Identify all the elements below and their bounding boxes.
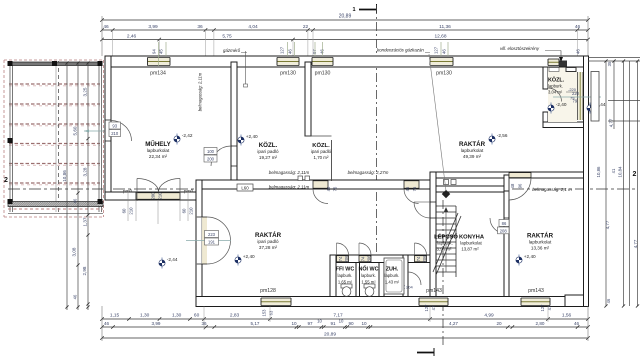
svg-text:210: 210 <box>189 207 194 215</box>
svg-text:ipari padló: ipari padló <box>311 149 332 154</box>
svg-text:lapburk.: lapburk. <box>437 241 453 246</box>
svg-text:191: 191 <box>208 240 216 245</box>
svg-text:210: 210 <box>129 207 134 215</box>
svg-text:46: 46 <box>405 186 410 191</box>
svg-text:ipari padló: ipari padló <box>257 239 279 244</box>
svg-text:4,77: 4,77 <box>609 118 614 127</box>
svg-text:36: 36 <box>197 24 203 30</box>
svg-text:belmagasság: 2,1 m: belmagasság: 2,1 m <box>532 187 572 192</box>
svg-text:3,08: 3,08 <box>72 247 77 256</box>
svg-text:46: 46 <box>606 298 611 303</box>
svg-text:13,36 m²: 13,36 m² <box>531 246 550 251</box>
svg-text:belmagasság: 2,11m: belmagasság: 2,11m <box>269 185 310 190</box>
svg-text:127: 127 <box>424 304 429 312</box>
svg-text:37,28 m²: 37,28 m² <box>259 245 278 250</box>
svg-text:1,37: 1,37 <box>83 217 88 226</box>
svg-text:11,36: 11,36 <box>439 24 451 30</box>
svg-text:lapburkolat: lapburkolat <box>461 148 484 153</box>
svg-text:45: 45 <box>159 49 164 54</box>
svg-text:5,60: 5,60 <box>73 126 78 135</box>
svg-text:RAKTÁR: RAKTÁR <box>527 233 554 240</box>
svg-text:MŰHELY: MŰHELY <box>145 141 171 148</box>
svg-text:86: 86 <box>502 221 507 226</box>
svg-text:1: 1 <box>352 7 355 13</box>
svg-text:lapburk.: lapburk. <box>338 273 353 278</box>
svg-text:60: 60 <box>182 208 187 213</box>
svg-text:1,70 m²: 1,70 m² <box>314 155 329 160</box>
svg-text:2,83: 2,83 <box>230 313 240 319</box>
svg-text:46: 46 <box>104 321 110 326</box>
svg-text:2,98: 2,98 <box>82 266 87 275</box>
svg-text:10,84: 10,84 <box>618 166 623 178</box>
svg-text:-2,56: -2,56 <box>497 133 508 138</box>
svg-text:RAKTÁR: RAKTÁR <box>459 141 486 148</box>
svg-text:3,04 m²: 3,04 m² <box>548 90 563 95</box>
svg-text:pm0: pm0 <box>184 189 194 195</box>
svg-text:vill. elosztószekrény: vill. elosztószekrény <box>500 46 540 51</box>
svg-text:lapburkolat: lapburkolat <box>460 241 482 246</box>
svg-text:2,46: 2,46 <box>127 34 137 40</box>
svg-text:10: 10 <box>339 319 344 324</box>
svg-text:belmagasság: 2,11m: belmagasság: 2,11m <box>269 170 310 175</box>
svg-text:lapburk.: lapburk. <box>385 273 400 278</box>
svg-text:46: 46 <box>576 49 581 54</box>
svg-text:208: 208 <box>500 229 508 234</box>
svg-text:pm0: pm0 <box>123 189 133 195</box>
svg-text:pm134: pm134 <box>150 71 166 77</box>
svg-text:lapburkolat: lapburkolat <box>147 148 170 153</box>
svg-text:5,75: 5,75 <box>222 34 232 40</box>
svg-text:97: 97 <box>307 321 313 326</box>
svg-text:pm130: pm130 <box>436 71 452 77</box>
svg-text:206: 206 <box>367 255 372 263</box>
svg-text:46: 46 <box>73 294 78 299</box>
svg-text:3,96 m²: 3,96 m² <box>437 247 452 252</box>
svg-text:35: 35 <box>607 61 612 66</box>
svg-text:91: 91 <box>330 321 336 326</box>
svg-text:210: 210 <box>111 131 119 136</box>
svg-text:10,86: 10,86 <box>62 170 67 182</box>
svg-text:pm130: pm130 <box>280 71 296 77</box>
svg-text:204: 204 <box>406 285 413 290</box>
svg-text:4,04: 4,04 <box>248 24 258 30</box>
svg-text:KÖZL.: KÖZL. <box>312 142 330 149</box>
svg-text:46: 46 <box>442 49 447 54</box>
svg-text:97: 97 <box>312 49 317 54</box>
svg-text:KÖZL.: KÖZL. <box>548 77 565 84</box>
svg-text:ipari padló: ipari padló <box>257 149 279 154</box>
svg-text:2: 2 <box>633 171 637 178</box>
svg-text:NŐI WC: NŐI WC <box>358 266 378 273</box>
svg-text:belmagasság: 2,27m: belmagasság: 2,27m <box>348 170 389 175</box>
svg-text:lapburk.: lapburk. <box>548 84 563 89</box>
svg-text:4,77: 4,77 <box>633 239 638 248</box>
svg-text:+2,40: +2,40 <box>246 134 258 139</box>
svg-text:1,30: 1,30 <box>172 313 182 319</box>
svg-text:-2,42: -2,42 <box>182 133 193 138</box>
svg-text:kondenzációs gázkazán: kondenzációs gázkazán <box>377 48 424 53</box>
svg-text:206: 206 <box>422 255 427 263</box>
svg-text:10: 10 <box>317 319 322 324</box>
svg-text:pm130: pm130 <box>315 71 331 77</box>
svg-text:76: 76 <box>333 186 338 191</box>
svg-text:100: 100 <box>207 149 215 154</box>
svg-text:60: 60 <box>194 313 200 319</box>
svg-text:pm128: pm128 <box>260 288 276 294</box>
svg-text:-2,40: -2,40 <box>556 102 567 107</box>
svg-text:1,15: 1,15 <box>110 313 120 319</box>
svg-text:L60: L60 <box>241 186 249 191</box>
svg-text:90: 90 <box>348 321 354 326</box>
svg-text:49,39 m²: 49,39 m² <box>463 154 482 159</box>
svg-text:79: 79 <box>570 96 575 101</box>
svg-text:46: 46 <box>103 24 109 30</box>
svg-text:1,30: 1,30 <box>140 313 150 319</box>
svg-text:200: 200 <box>207 157 215 162</box>
svg-text:127: 127 <box>434 46 439 54</box>
svg-text:3,25: 3,25 <box>83 87 88 96</box>
svg-text:1,55 m²: 1,55 m² <box>361 280 376 285</box>
svg-text:94: 94 <box>152 49 157 54</box>
svg-text:pm143: pm143 <box>528 288 544 294</box>
svg-text:1,43 m²: 1,43 m² <box>385 280 400 285</box>
svg-text:KÖZL.: KÖZL. <box>259 142 278 149</box>
svg-text:-2,44: -2,44 <box>167 257 178 262</box>
svg-text:153: 153 <box>262 309 267 317</box>
svg-text:46: 46 <box>326 186 331 191</box>
svg-text:RAKTÁR: RAKTÁR <box>255 232 282 239</box>
svg-text:1,65 m²: 1,65 m² <box>338 280 353 285</box>
svg-text:200: 200 <box>151 192 156 200</box>
svg-text:74: 74 <box>416 256 421 261</box>
svg-text:10,86: 10,86 <box>596 166 601 178</box>
svg-text:-220: -220 <box>568 87 577 92</box>
svg-text:22: 22 <box>303 24 309 30</box>
svg-text:127: 127 <box>280 46 285 54</box>
svg-text:5,17: 5,17 <box>251 321 260 326</box>
svg-text:74: 74 <box>361 256 366 261</box>
svg-text:20: 20 <box>496 321 502 326</box>
svg-text:+2,40: +2,40 <box>243 254 255 259</box>
svg-text:belmagasság: 2,11m: belmagasság: 2,11m <box>198 72 203 111</box>
svg-text:46: 46 <box>73 198 78 203</box>
svg-text:20,89: 20,89 <box>324 332 336 338</box>
svg-text:4,99: 4,99 <box>484 313 494 319</box>
svg-text:20,89: 20,89 <box>339 14 352 20</box>
svg-text:3,28: 3,28 <box>83 167 88 176</box>
svg-text:41: 41 <box>611 168 616 173</box>
svg-text:lapburk.: lapburk. <box>361 273 376 278</box>
svg-text:lapburkolat: lapburkolat <box>529 240 552 245</box>
svg-text:ZUH.: ZUH. <box>386 267 399 273</box>
svg-text:93: 93 <box>112 124 117 129</box>
svg-text:22,34 m²: 22,34 m² <box>149 154 168 159</box>
svg-text:210: 210 <box>158 192 163 200</box>
svg-text:46: 46 <box>574 321 580 326</box>
svg-text:12,68: 12,68 <box>434 34 446 40</box>
svg-text:3,99: 3,99 <box>152 321 161 326</box>
svg-text:206: 206 <box>344 255 349 263</box>
svg-text:46: 46 <box>320 49 325 54</box>
svg-text:46: 46 <box>575 24 581 30</box>
svg-text:60: 60 <box>122 208 127 213</box>
svg-text:74: 74 <box>338 256 343 261</box>
svg-text:63: 63 <box>269 310 274 315</box>
svg-text:96: 96 <box>518 183 523 188</box>
svg-text:gázmérő: gázmérő <box>223 48 241 53</box>
svg-text:4,27: 4,27 <box>449 321 458 326</box>
svg-text:4,77: 4,77 <box>605 220 610 229</box>
svg-text:2,80: 2,80 <box>536 321 545 326</box>
svg-text:pm143: pm143 <box>426 288 442 294</box>
svg-text:10: 10 <box>291 321 297 326</box>
svg-text:76: 76 <box>412 186 417 191</box>
svg-text:48: 48 <box>510 183 515 188</box>
svg-text:19,27 m²: 19,27 m² <box>259 155 278 160</box>
svg-text:+2,40: +2,40 <box>524 254 536 259</box>
svg-text:46: 46 <box>288 49 293 54</box>
svg-text:3,99: 3,99 <box>148 24 158 30</box>
svg-text:47: 47 <box>431 305 436 310</box>
svg-text:FFI WC: FFI WC <box>336 267 355 273</box>
svg-text:127: 127 <box>540 304 545 312</box>
svg-text:LÉPCSŐ: LÉPCSŐ <box>434 233 458 241</box>
svg-text:13,87 m²: 13,87 m² <box>461 247 479 252</box>
svg-text:2: 2 <box>4 177 8 184</box>
svg-text:223: 223 <box>208 232 216 237</box>
svg-text:10: 10 <box>361 321 367 326</box>
svg-text:1,56: 1,56 <box>562 313 572 319</box>
